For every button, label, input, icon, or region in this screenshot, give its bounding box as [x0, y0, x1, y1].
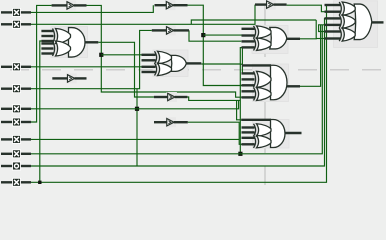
junction dot x137 pin6 line [135, 107, 139, 111]
wire link x240 to x242 [240, 63, 242, 65]
junction dot x101 y55 [99, 53, 103, 57]
xor gate U6b [339, 15, 355, 28]
halo gate cluster C2 [153, 50, 188, 77]
junction dot v2 pin10 [38, 181, 41, 184]
input pin P4 [1, 85, 31, 93]
wire link y24 to y20 [191, 20, 316, 24]
buffer B3 [152, 25, 189, 35]
gate C4 input stubs [242, 65, 272, 97]
wire buffer1 output chain [87, 5, 242, 97]
xor gate U5b [254, 135, 272, 148]
halo gate cluster C5 [253, 120, 290, 149]
halo gate cluster CT [334, 1, 378, 48]
junction dot x240 pin8 line [238, 152, 242, 156]
xor gate U3b [254, 38, 272, 51]
wire branch y55 to C2 row1 [101, 54, 141, 56]
wire buffer3 out elbow [189, 30, 241, 41]
xor gate U1a [53, 29, 71, 44]
buffer B2 [155, 0, 188, 10]
wire C1 output to x134 riser [98, 42, 154, 97]
wire buffer6 out to x240 [187, 97, 240, 100]
xor gate U4a [254, 71, 272, 87]
input pin P8 [1, 150, 31, 158]
buffer B6 [154, 92, 188, 102]
wire pin5 to buffer3 riser [31, 30, 152, 88]
input pin P10 [1, 178, 31, 186]
wire branch y35 to C3 row2 [203, 34, 241, 36]
input pin P2 [1, 20, 31, 28]
or gate U3c [270, 27, 300, 49]
wire x203 vertical chain [188, 5, 242, 85]
halo gate cluster C1 [51, 27, 88, 58]
xor gate U4b [254, 88, 272, 101]
or gate U2c [170, 55, 201, 71]
xor gate U1b [53, 41, 71, 56]
gate C2 input stubs [142, 55, 156, 72]
gate C3 input stubs [242, 29, 255, 48]
wire C5 bus feed [237, 100, 242, 119]
input pin P9 [1, 162, 31, 170]
gate C5 input stubs [241, 120, 271, 145]
and gate U4c [271, 65, 301, 100]
halo gate cluster C3 [252, 26, 288, 54]
wire branch x137 down [136, 89, 138, 166]
wire pin9 run [31, 18, 326, 166]
wire pin8 run [31, 25, 322, 154]
wire buffer5 out to C5 row4 [188, 122, 242, 144]
or gate U6d [354, 4, 383, 40]
xor gate U5a [254, 124, 272, 137]
wire pin3 to C2 row3 [31, 66, 142, 68]
wire C2 output run [201, 63, 240, 65]
buffer B4 [52, 73, 86, 83]
input pin P6 [1, 118, 31, 126]
and gate U5c [271, 120, 302, 148]
wire riser bracket to CT rows 4-5 [319, 25, 325, 32]
gate CT input stubs [325, 5, 341, 39]
wire C4 out riser [300, 25, 321, 87]
halo gate cluster C4 [253, 64, 289, 102]
wire bufferT2 out jog [287, 5, 325, 12]
input pin P7 [1, 135, 31, 143]
buffer B7 top-right [255, 0, 287, 10]
xor gate U6a [339, 2, 355, 15]
wire vertical x242.4 to C4 row1 [241, 48, 243, 73]
wire C3 out riser [300, 20, 316, 39]
xor gate U6c [339, 28, 355, 41]
input pin P5 [1, 105, 31, 113]
wire pin2 run [31, 5, 255, 25]
wire pin4 riser to buffer1 [31, 5, 52, 122]
gate C1 input stubs [41, 31, 53, 54]
wire long vertical x240 [240, 48, 241, 154]
junction dot x203 y35 [201, 33, 205, 37]
wire pin6 riser to buffer6 line [31, 100, 239, 108]
page boundary dashed line horizontal [10, 69, 386, 71]
wire pin1 to buffer2 riser [31, 5, 153, 12]
wire jog to CT row6 [316, 38, 324, 40]
and gate U1c [69, 28, 99, 58]
page boundary dashed line vertical [264, 6, 266, 188]
xor gate U2b [155, 63, 172, 76]
xor gate U3a [254, 26, 272, 38]
input pin P1 [1, 8, 31, 16]
wire left vertical x39.8 [40, 41, 42, 182]
input pin P3 [1, 63, 31, 71]
wire pin10 run [31, 5, 327, 182]
buffer B1 [52, 0, 87, 10]
buffer B5 [154, 117, 188, 127]
xor gate U2a [155, 51, 172, 64]
wire pin7 to riser [31, 138, 239, 140]
